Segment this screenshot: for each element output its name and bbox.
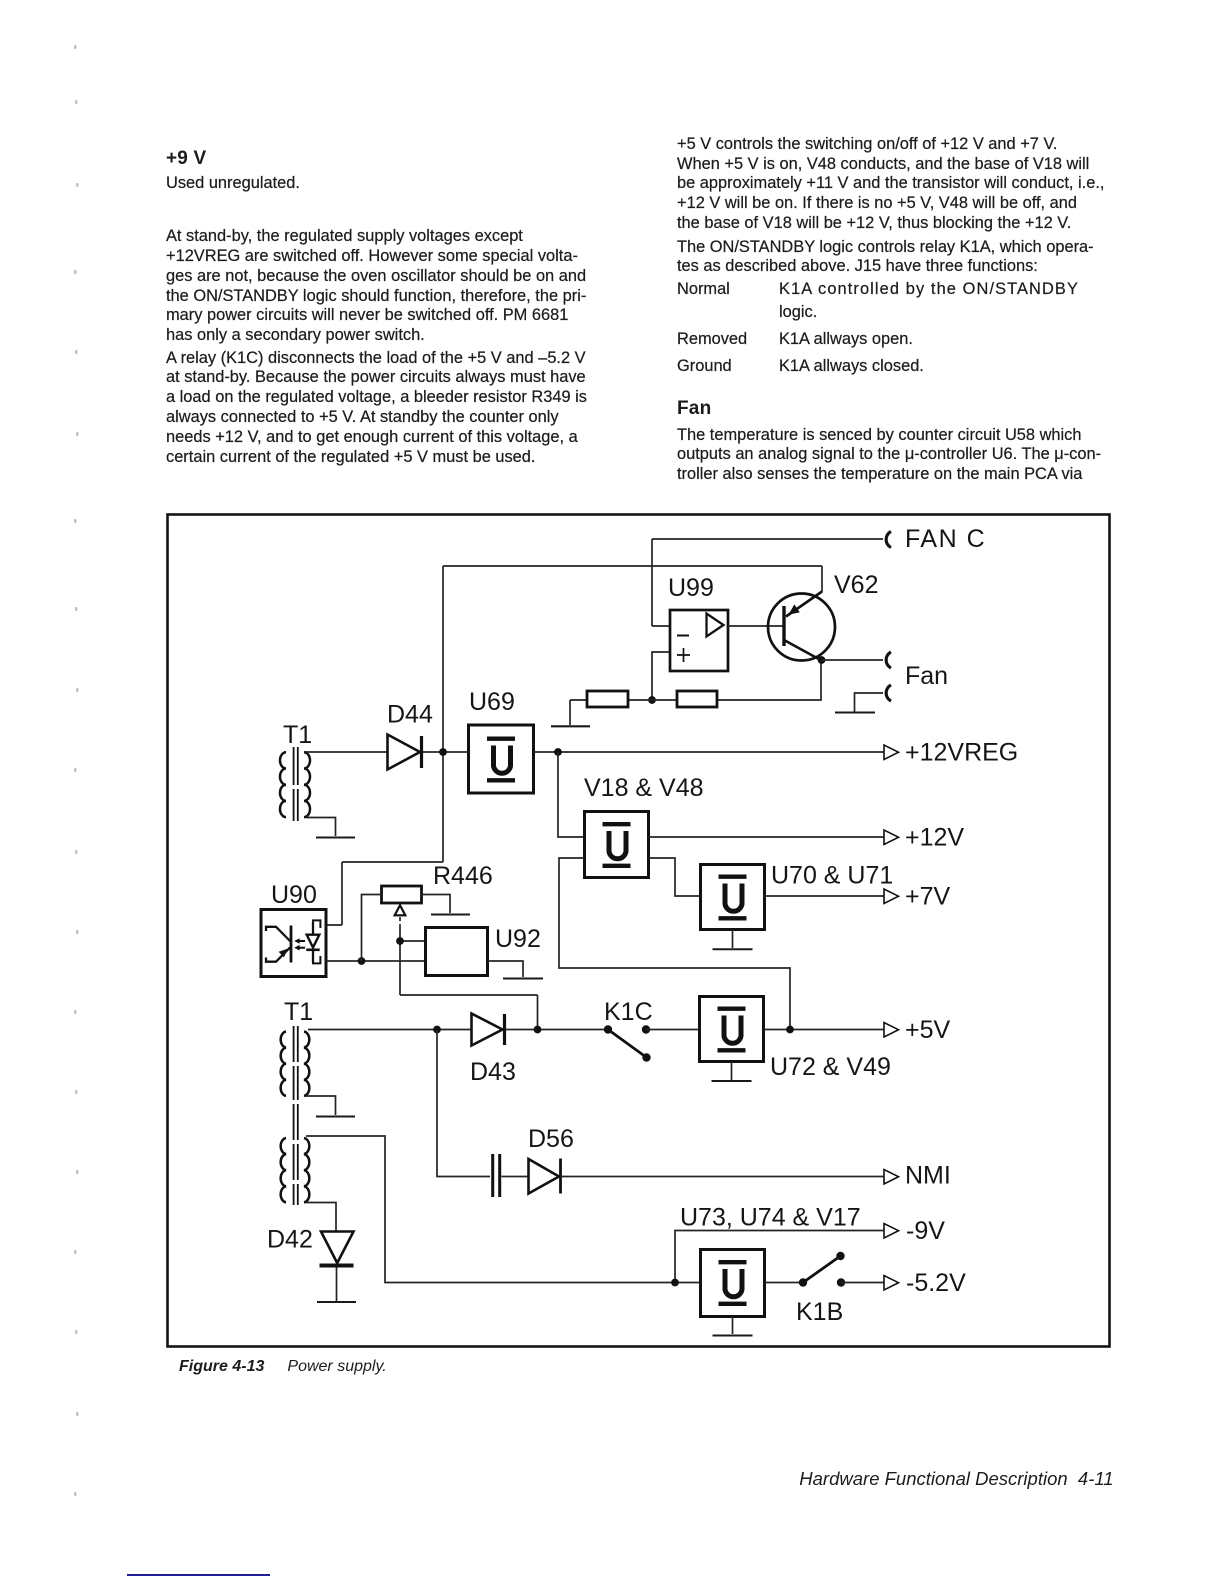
svg-text:D44: D44 [387, 701, 433, 729]
diode D42 [320, 1232, 354, 1266]
wire T1 winding A bottom to ground [306, 1096, 336, 1115]
node junction wiper/U92 [396, 937, 404, 945]
svg-text:-9V: -9V [906, 1217, 945, 1245]
left column heading +9 V [166, 148, 206, 170]
ground (T1 upper) [316, 837, 355, 839]
connector arrow +5V [884, 1023, 899, 1038]
connector arrow NMI [884, 1170, 899, 1185]
ground (U72) [712, 1080, 752, 1082]
regulator U72 [700, 997, 764, 1062]
node junction D44/U69/V62 rail [439, 748, 447, 756]
svg-text:U72 & V49: U72 & V49 [770, 1053, 891, 1081]
ground (D42) [317, 1301, 356, 1303]
page footer [614, 1468, 1114, 1490]
svg-text:+7V: +7V [905, 883, 951, 911]
node junction U90/R446 [358, 957, 366, 965]
svg-text:R446: R446 [433, 862, 493, 890]
wire +5V output [764, 1029, 885, 1031]
node junction +12VREG [554, 748, 562, 756]
ground (fan return) [835, 712, 875, 714]
svg-text:-5.2V: -5.2V [906, 1269, 966, 1297]
node junction D56 branch [433, 1026, 441, 1034]
wire U73 output to K1B [765, 1282, 804, 1284]
diode D56 [529, 1159, 561, 1194]
connector arrow -5.2V [884, 1276, 899, 1291]
svg-text:V18 & V48: V18 & V48 [584, 774, 704, 802]
wire +12V output [649, 836, 885, 838]
svg-text:FAN C: FAN C [905, 525, 986, 553]
regulator U92 [426, 928, 488, 976]
wire capacitor to D56 [502, 1176, 529, 1178]
wire Fan return to ground [855, 693, 884, 712]
right column paragraph 1 [677, 135, 1104, 234]
wire U92 output to ground [488, 961, 524, 977]
wire -9V tap [675, 1231, 884, 1283]
wire U90 output to U92 [326, 960, 425, 962]
wire +5V rectifier rail [308, 1029, 471, 1031]
svg-text:+12V: +12V [905, 824, 964, 852]
transistor V62 [768, 592, 835, 661]
right column paragraph 2 [677, 238, 1094, 278]
ground (U70&U71) [713, 948, 753, 950]
wire T1 winding B bottom to D42 [306, 1203, 336, 1232]
node V62 collector junction [818, 656, 826, 664]
svg-text:T1: T1 [284, 998, 313, 1026]
wire K1C to U72 [646, 1029, 699, 1031]
wire R446 right to ground [422, 895, 451, 914]
wire D56 to NMI [562, 1176, 884, 1178]
ground (U73) [713, 1335, 753, 1337]
wire NMI branch [437, 1030, 490, 1177]
decorative scan specks [74, 45, 79, 1496]
svg-text:U73, U74 & V17: U73, U74 & V17 [680, 1204, 861, 1232]
right column heading Fan [677, 398, 711, 420]
capacitor (NMI) [493, 1154, 500, 1197]
diode D43 [472, 1014, 505, 1046]
wire +12VREG to V18&V48 input [558, 752, 584, 837]
svg-text:U92: U92 [495, 925, 541, 953]
left column paragraph 1 [166, 227, 586, 346]
wire +7V output [765, 895, 885, 897]
transformer T1 lower [281, 1026, 310, 1205]
wire D42 cathode to ground [336, 1268, 338, 1302]
ground (left resistor) [551, 725, 590, 727]
op-amp U99 [670, 610, 728, 671]
regulator U70 & U71 [701, 865, 765, 930]
wire R446 left to junction [362, 895, 382, 962]
svg-text:T1: T1 [283, 721, 312, 749]
regulator V18 & V48 [585, 812, 649, 878]
wire R446 wiper sense line [400, 917, 538, 1029]
right column paragraph 3 [677, 426, 1101, 485]
wire T1 winding B top to U73 input [306, 1136, 700, 1283]
wire D44 cathode to U69 [423, 751, 468, 753]
svg-text:NMI: NMI [905, 1162, 951, 1190]
bottom blue rule [127, 1574, 270, 1577]
svg-text:D42: D42 [267, 1226, 313, 1254]
regulator U69 [469, 725, 534, 793]
svg-text:K1B: K1B [796, 1298, 843, 1326]
left column: used unregulated [166, 174, 300, 194]
node junction resistor divider [648, 696, 656, 704]
svg-text:K1C: K1C [604, 998, 653, 1026]
ground (U92) [503, 978, 543, 980]
wire V18&V48 to U70&U71 [649, 858, 701, 896]
svg-text:U99: U99 [668, 574, 714, 602]
wire V18&V48 control from +5V net [559, 858, 790, 1029]
J15 table row: Removed [677, 330, 747, 350]
connector FAN C [886, 532, 891, 548]
relay contact K1B [799, 1252, 845, 1287]
svg-text:+5V: +5V [905, 1016, 951, 1044]
relay contact K1C [604, 1025, 651, 1061]
resistor R (right, unlabeled) [677, 691, 717, 707]
J15 table row: Ground [677, 357, 732, 377]
diode D44 [388, 735, 422, 770]
wire op-amp output to V62 base [728, 625, 784, 627]
svg-text:D56: D56 [528, 1125, 574, 1153]
connector arrow -9V [884, 1224, 899, 1239]
svg-text:V62: V62 [834, 571, 878, 599]
svg-text:U90: U90 [271, 881, 317, 909]
regulator U73 [701, 1250, 765, 1317]
wire op-amp + input to resistor junction [652, 652, 670, 700]
wire +12VREG rail [534, 751, 884, 753]
svg-text:U69: U69 [469, 688, 515, 716]
left column paragraph 2 [166, 349, 587, 468]
wire U70&U71 ground stub [732, 930, 734, 948]
wire D43 cathode to K1C [506, 1029, 608, 1031]
node junction +5V feedback [786, 1026, 794, 1034]
svg-text:+12VREG: +12VREG [905, 739, 1018, 767]
wire U73 ground stub [732, 1317, 734, 1334]
ground (R446) [431, 914, 470, 916]
svg-text:Fan: Fan [905, 662, 948, 690]
J15 table row: Normal [677, 280, 730, 300]
wire resistor row net [570, 660, 821, 725]
transformer T1 upper [280, 747, 310, 821]
potentiometer R446 [382, 886, 422, 915]
figure caption [179, 1358, 264, 1376]
wire V62 emitter to +12V unreg rail [821, 566, 823, 592]
connector Fan return [886, 685, 891, 701]
wire U72 ground stub [731, 1062, 733, 1080]
wire V62 collector to Fan connector [822, 659, 884, 661]
connector arrow +7V [884, 889, 899, 904]
resistor R (left, unlabeled) [587, 691, 628, 707]
figure frame [168, 515, 1110, 1347]
wire T1 secondary bottom to ground [306, 818, 336, 837]
wire K1B to -5.2V [841, 1282, 884, 1284]
connector Fan [886, 652, 891, 668]
optocoupler U90 [261, 910, 326, 977]
ground (T1 lower winding A) [316, 1116, 355, 1118]
wire FAN C net [652, 539, 883, 626]
connector arrow +12VREG [884, 745, 899, 760]
wire T1 secondary top to D44 [306, 751, 387, 753]
node junction -5.2V input [671, 1279, 679, 1287]
svg-text:U70 & U71: U70 & U71 [771, 862, 893, 890]
connector arrow +12V [884, 830, 899, 845]
svg-text:D43: D43 [470, 1058, 516, 1086]
wire +12V unregulated net [326, 566, 822, 925]
node junction U92 sense [534, 1026, 542, 1034]
